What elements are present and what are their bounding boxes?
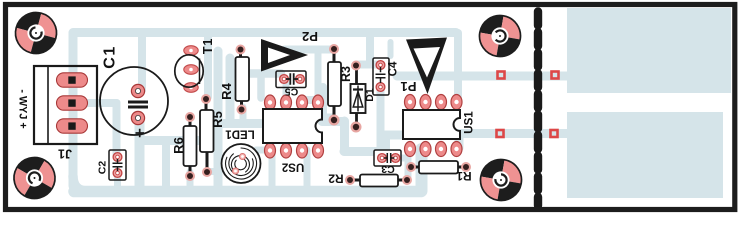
board break dashed line (534, 12, 542, 206)
capacitor C3 (374, 150, 401, 166)
wire R6 bottom pad to bus (187, 172, 194, 187)
wire J1 pad2 to the right (78, 99, 117, 107)
wire C5 to US2 pad stub (283, 84, 290, 99)
wire C1 bottom pad to bus (135, 119, 145, 188)
svg-text:R4: R4 (219, 82, 234, 99)
transistor T1 (175, 55, 203, 87)
wire long vertical beside T1 R4 (214, 51, 223, 186)
wire drop from bus to R5 top pad (204, 33, 212, 97)
op-amp US2 (263, 109, 322, 143)
wire R5 bottom pad stub (206, 168, 218, 175)
svg-text:C3: C3 (381, 163, 395, 175)
mounting hole top-right (476, 12, 523, 59)
wire US2 pin7 to bus (304, 150, 311, 186)
wire LED1 to US2 pin5 (256, 147, 266, 154)
wire long horizontal to top pour (397, 72, 570, 81)
wire elbow to R3 bottom pad (323, 87, 333, 118)
wire drop to C1 top pad (138, 33, 146, 90)
svg-text:P2: P2 (302, 29, 318, 44)
test point P1 (406, 38, 447, 95)
svg-text:R3: R3 (339, 66, 353, 82)
wire C3 right pad to R1 R2 pads (395, 158, 408, 179)
mounting hole bottom-left (6, 150, 62, 206)
mounting hole top-left (11, 8, 61, 58)
svg-text:US1: US1 (464, 111, 476, 134)
copper pour top (567, 8, 731, 93)
node C1 pads (131, 84, 144, 124)
svg-text:C2: C2 (97, 161, 109, 175)
capacitor C1 (100, 67, 168, 137)
resistor R1 (406, 161, 471, 174)
svg-text:- WYJ +: - WYJ + (17, 89, 29, 128)
wire horizontal C1 to R6 R5 area (140, 136, 218, 145)
resistor R6 (184, 112, 197, 181)
connector J1 (34, 66, 97, 144)
resistor R3 (328, 44, 341, 126)
mounting hole bottom-right (477, 156, 524, 203)
wire bus left corner (73, 176, 88, 191)
wire C2 bottom pad to bus (114, 172, 121, 187)
node J1 pads (57, 73, 88, 133)
wire C5 right pad to R3 top pad (285, 46, 333, 54)
diode D1 (351, 61, 366, 133)
wire bus corner up to US1 (416, 149, 428, 191)
wire US2 notch to US1 s-path (322, 121, 403, 152)
wire down to C2 top pad (113, 103, 121, 155)
wire R4 bottom stub (240, 107, 247, 122)
wire US1 to bottom pour (458, 134, 570, 149)
wire elbow to C5 left pad (234, 69, 281, 78)
wire stub right of C4 (388, 42, 394, 56)
svg-text:C4: C4 (388, 61, 400, 76)
svg-text:C1: C1 (102, 45, 119, 68)
wire bottom ground bus (74, 186, 421, 198)
capacitor C5 (276, 71, 306, 88)
wire bus drop to D1 C4 tops (357, 33, 380, 65)
resistor R4 (236, 45, 250, 115)
wire across US2 top pads (305, 96, 331, 104)
resistor R5 (200, 94, 214, 177)
svg-text:J1: J1 (58, 147, 72, 161)
svg-text:C5: C5 (285, 86, 299, 98)
node US2 pads (265, 95, 324, 158)
wire horizontal into US2 pin1 area (214, 119, 261, 128)
op-amp US1 (403, 110, 460, 139)
wire short vertical left of R4 (226, 58, 235, 122)
svg-text:P1: P1 (401, 79, 417, 94)
capacitor C2 (109, 150, 126, 180)
test point P2 (261, 39, 308, 72)
svg-text:R5: R5 (210, 111, 225, 128)
capacitor C4 (373, 58, 389, 95)
svg-text:LED1: LED1 (225, 128, 255, 140)
node square via pads to pours (497, 72, 559, 138)
svg-text:US2: US2 (282, 161, 304, 173)
svg-text:R2: R2 (328, 172, 344, 186)
wire C4 bottom to C3 left pad (377, 87, 385, 151)
copper pour bottom (567, 112, 723, 198)
svg-text:R6: R6 (171, 137, 186, 154)
node US1 pads (405, 95, 463, 157)
LED LED1 (222, 144, 261, 183)
wire down to US2 pin4 (315, 51, 322, 99)
wire vertical to bus left of LED1 (162, 141, 170, 187)
svg-text:R1: R1 (456, 169, 472, 183)
svg-text:T1: T1 (201, 38, 215, 54)
resistor R2 (345, 175, 412, 187)
node T1 pads (184, 46, 198, 93)
wire top bus (73, 33, 456, 187)
wire US2 pin5 to bus (269, 150, 276, 186)
wire down to US2 pin1 (257, 74, 265, 98)
wire vertical right of P1 to US1 pin (454, 33, 462, 99)
